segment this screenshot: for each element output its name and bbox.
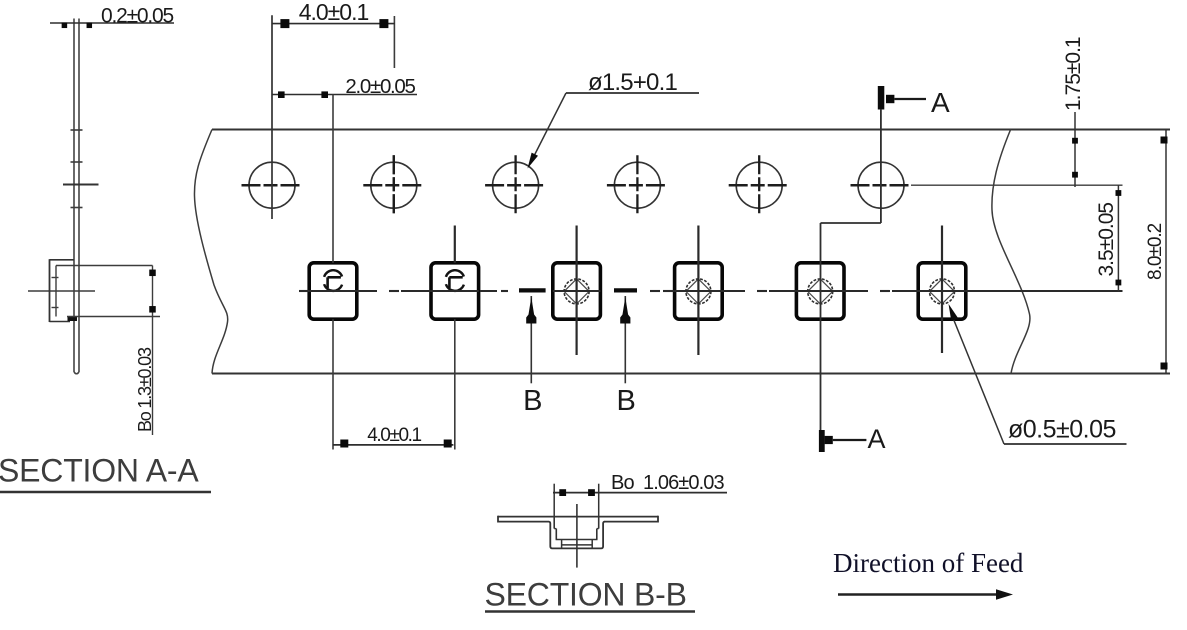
section A-A pocket bump inner wall [52, 266, 59, 317]
sprocket hole 2 dimension extension line [393, 16, 395, 68]
svg-text:3.5±0.05: 3.5±0.05 [1095, 203, 1118, 277]
section A-A cut line lower bar [819, 430, 825, 452]
sprocket hole 4 [614, 162, 660, 208]
section B-B cut mark right (thick) [614, 288, 637, 292]
component pocket 5 [796, 263, 844, 319]
svg-text:Direction of Feed: Direction of Feed [833, 548, 1024, 578]
svg-text:ø0.5±0.05: ø0.5±0.05 [1008, 416, 1116, 444]
svg-text:8.0±0.2: 8.0±0.2 [1145, 223, 1166, 280]
svg-text:Bo 1.3±0.03: Bo 1.3±0.03 [135, 347, 155, 432]
component pocket 1 [309, 263, 357, 319]
pocket 6 bottom hole inscribed diamond [930, 279, 955, 304]
svg-text:SECTION B-B: SECTION B-B [485, 577, 687, 613]
section B-B left flange underside [498, 521, 549, 523]
component pocket 6 [918, 263, 966, 319]
dimension Bo 1.3±0.03 [135, 266, 156, 436]
sprocket hole 6 horizontal centerline extension [911, 184, 1123, 186]
section B-B arrow left [526, 296, 536, 383]
sprocket hole 1 [249, 162, 295, 208]
tape left break edge [194, 130, 227, 374]
leader ø0.5±0.05 pocket bottom hole diameter [949, 304, 1127, 444]
svg-text:2.0±0.05: 2.0±0.05 [345, 75, 415, 98]
pocket 6 bottom hole circle [930, 279, 955, 304]
dimension Bo 1.3±0.03 pocket depth extension lines [56, 266, 160, 317]
component pocket 3 [553, 263, 601, 319]
direction of feed arrow [838, 589, 1013, 600]
pocket 4 bottom hole circle [686, 279, 711, 304]
sprocket hole 4 vertical centerline [636, 155, 638, 215]
svg-text:Bo 1.06±0.03: Bo 1.06±0.03 [611, 472, 724, 494]
sprocket hole 3 vertical centerline [514, 155, 516, 215]
section A-A cut line upper bar [878, 86, 885, 110]
sprocket hole 5 vertical centerline [758, 155, 760, 215]
leader ø1.5+0.1 sprocket hole diameter [528, 69, 700, 169]
section B-B pocket bottom dimple [562, 540, 593, 548]
pocket 1 component outline (coil mark) [324, 270, 342, 291]
pocket row horizontal centerline (dash-dot) [299, 290, 1123, 292]
dimension 2.0±0.05 hole-to-pocket offset [272, 75, 417, 98]
dimension 3.5±0.05 hole centerline to pocket centerline [1095, 185, 1121, 291]
svg-text:SECTION A-A: SECTION A-A [0, 453, 199, 489]
section B-B pocket inner bottom [556, 539, 598, 541]
dimension 4.0±0.1 hole pitch [272, 0, 395, 28]
section B-B cut mark left (thick) [519, 288, 546, 292]
pocket 1 vertical centerline upper (extension to 2.0 dim) [332, 95, 334, 263]
label SECTION A-A [0, 453, 211, 493]
sprocket hole 1 long vertical centerline / extension [271, 15, 273, 219]
section B-B flange top surface (with cover tape across) [498, 516, 658, 518]
sprocket hole 2 vertical centerline [393, 155, 395, 215]
pocket 5 bottom hole inscribed diamond [808, 279, 833, 304]
strip tick at hole upper edge [71, 161, 83, 163]
sprocket hole 6 [858, 162, 904, 208]
svg-text:4.0±0.1: 4.0±0.1 [299, 0, 369, 25]
pocket 3 bottom hole circle [564, 279, 589, 304]
svg-text:ø1.5+0.1: ø1.5+0.1 [588, 69, 677, 96]
dimension 4.0±0.1 pocket pitch [333, 425, 454, 448]
dimension 1.75±0.1 edge to hole centerline [1062, 37, 1085, 187]
pocket 2 vertical centerline upper [454, 226, 456, 263]
section A-A tape strip body [74, 19, 79, 374]
pocket 4 bottom hole inscribed diamond [686, 279, 711, 304]
label A top with arrow [886, 87, 950, 118]
section B-B pocket inner wall left [554, 517, 556, 540]
pocket 4 vertical centerline [697, 226, 699, 356]
section B-B pocket centerline [576, 504, 578, 568]
strip tick at tape top edge [71, 129, 83, 131]
pocket 3 bottom hole inscribed diamond [564, 279, 589, 304]
component pocket 2 [431, 263, 479, 319]
strip pocket centerline mark [28, 290, 95, 292]
pocket 2 component outline (coil mark) [446, 270, 464, 291]
pocket 3 vertical centerline [575, 226, 577, 356]
pocket 2 vertical centerline lower (extension to 4.0 dim) [454, 319, 456, 449]
section B-B arrow right [620, 296, 630, 383]
section B-B right flange underside [604, 521, 658, 523]
label A bottom with arrow [825, 424, 886, 454]
svg-text:4.0±0.1: 4.0±0.1 [367, 425, 421, 446]
strip tick at hole lower edge [71, 207, 83, 209]
tape bottom edge [212, 373, 1170, 375]
section B-B right end cap [657, 516, 659, 523]
sprocket hole 2 [371, 162, 417, 208]
component pocket 4 [675, 263, 723, 319]
svg-text:0.2±0.05: 0.2±0.05 [101, 5, 174, 28]
pocket 1 vertical centerline lower (extension to 4.0 dim) [332, 319, 334, 449]
section B-B left end cap [497, 516, 499, 523]
tape top edge [212, 129, 1170, 131]
dimension 0.2±0.05 strip thickness [50, 5, 174, 29]
sprocket hole 4 horizontal centerline [607, 184, 668, 187]
svg-text:B: B [523, 385, 542, 417]
svg-text:A: A [931, 87, 950, 118]
svg-text:1.75±0.1: 1.75±0.1 [1062, 37, 1085, 111]
sprocket hole 3 horizontal centerline [485, 184, 546, 187]
sprocket hole 5 [736, 162, 782, 208]
section B-B pocket outer wall [549, 522, 604, 549]
dimension 8.0±0.2 tape width [1145, 130, 1168, 374]
section B-B pocket inner wall right [597, 517, 599, 540]
section A-A pocket bump outer wall [50, 259, 78, 322]
svg-text:A: A [868, 424, 886, 454]
label SECTION B-B [485, 577, 696, 613]
sprocket hole 1 horizontal centerline [242, 184, 303, 187]
svg-text:B: B [617, 385, 636, 417]
pocket 5 bottom hole circle [808, 279, 833, 304]
tape right break edge [992, 130, 1030, 374]
sprocket hole 2 horizontal centerline [363, 184, 424, 187]
sprocket hole 5 horizontal centerline [729, 184, 790, 187]
sprocket hole 6 horizontal centerline [851, 184, 912, 187]
dimension Bo 1.06±0.03 pocket opening [553, 472, 727, 517]
sprocket hole 2 vertical centerline [393, 155, 395, 215]
pocket 6 vertical centerline [941, 226, 943, 354]
section A-A cut line (through hole 6, jog, through pocket 5) [821, 109, 881, 430]
sprocket hole 3 [493, 162, 539, 208]
strip hole centerline mark [63, 184, 99, 186]
